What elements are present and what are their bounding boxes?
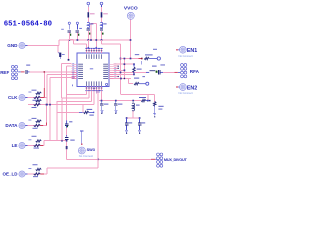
svg-text:No Connect: No Connect [179, 54, 193, 58]
svg-text:SW3: SW3 [87, 148, 95, 152]
svg-text:VVCO: VVCO [124, 6, 138, 12]
svg-text:651-0564-80: 651-0564-80 [4, 21, 52, 29]
svg-text:RFA: RFA [190, 69, 200, 74]
svg-text:LE: LE [12, 143, 18, 148]
svg-text:OE_LD: OE_LD [2, 172, 18, 177]
svg-text:REF: REF [0, 70, 9, 75]
svg-text:EN2: EN2 [187, 85, 197, 91]
svg-text:No Connect: No Connect [79, 154, 93, 158]
svg-text:MUX_DIVOUT: MUX_DIVOUT [164, 158, 188, 162]
svg-text:GND: GND [7, 43, 18, 48]
svg-text:No Connect: No Connect [179, 91, 193, 95]
svg-text:EN1: EN1 [187, 48, 197, 54]
svg-text:CLK: CLK [8, 95, 18, 100]
svg-text:DATA: DATA [5, 123, 18, 128]
